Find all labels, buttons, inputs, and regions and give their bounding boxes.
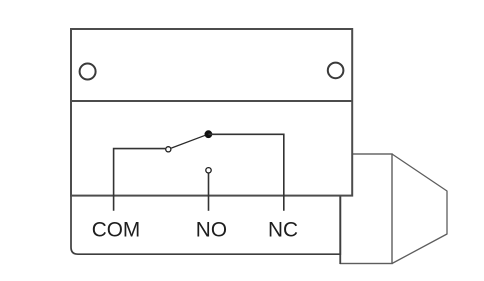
wire NC lead	[208, 134, 283, 211]
mounting hole left	[80, 64, 96, 80]
housing right edge shared with actuator	[339, 196, 341, 264]
switch body outline	[71, 29, 352, 196]
contact NC junction dot	[205, 130, 213, 138]
contact NO (open terminal contact)	[206, 168, 211, 173]
svg-text:NC: NC	[268, 219, 298, 242]
cover divider line	[70, 100, 352, 102]
actuator neck rectangle	[341, 154, 393, 264]
actuator bullet tip	[392, 154, 447, 264]
contact pivot on COM blade	[166, 147, 171, 152]
mounting hole right	[328, 63, 344, 79]
wire COM lead	[114, 149, 166, 211]
switch blade (movable contact arm)	[171, 135, 205, 148]
svg-text:NO: NO	[196, 219, 227, 242]
lower housing (rounded-bottom case)	[71, 196, 340, 254]
svg-text:COM: COM	[92, 219, 141, 242]
wire NO lead	[208, 173, 210, 210]
